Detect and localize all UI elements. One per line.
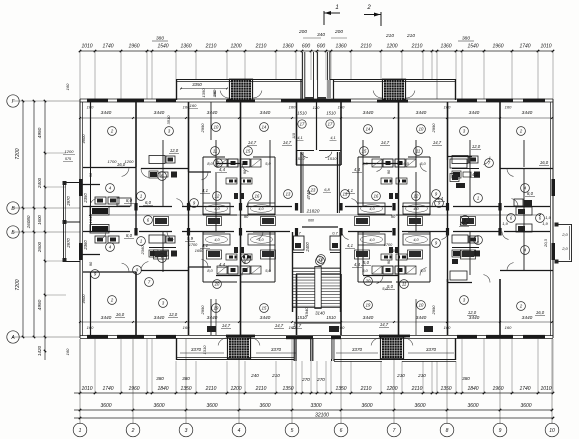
svg-text:14: 14 [366, 127, 371, 132]
bottom dimension row 1 [74, 392, 553, 394]
svg-text:12: 12 [215, 194, 220, 199]
svg-text:1940: 1940 [304, 307, 309, 317]
svg-text:1960: 1960 [492, 44, 503, 50]
svg-text:2,0: 2,0 [561, 246, 568, 251]
svg-text:11: 11 [213, 149, 217, 154]
svg-text:4,1: 4,1 [347, 243, 354, 248]
svg-text:160: 160 [190, 103, 197, 108]
svg-text:1600: 1600 [37, 215, 42, 225]
svg-text:2360: 2360 [140, 245, 145, 256]
svg-text:3370: 3370 [352, 347, 363, 352]
svg-text:1010: 1010 [540, 44, 551, 50]
svg-text:16: 16 [374, 194, 379, 199]
svg-text:110: 110 [292, 133, 296, 139]
svg-text:3440: 3440 [101, 315, 112, 321]
svg-text:2400: 2400 [37, 177, 42, 189]
svg-text:2,0: 2,0 [561, 232, 568, 237]
svg-text:1: 1 [477, 196, 479, 201]
svg-text:8,0: 8,0 [126, 198, 133, 203]
svg-text:16: 16 [255, 194, 260, 199]
svg-text:16,0: 16,0 [116, 312, 125, 317]
svg-text:12,0: 12,0 [472, 144, 481, 149]
axis circle A [7, 331, 19, 343]
svg-text:600: 600 [317, 44, 326, 50]
svg-text:1010: 1010 [81, 44, 92, 50]
center lobby [316, 102, 318, 150]
svg-text:10: 10 [419, 127, 424, 132]
svg-text:32100: 32100 [315, 413, 329, 419]
svg-text:6,0: 6,0 [145, 200, 152, 205]
svg-text:4,4: 4,4 [437, 196, 444, 201]
svg-text:1640: 1640 [88, 214, 93, 224]
svg-text:1360: 1360 [282, 44, 293, 50]
svg-text:1200: 1200 [230, 44, 241, 50]
svg-text:4600: 4600 [81, 294, 86, 304]
svg-text:15: 15 [262, 306, 267, 311]
svg-text:3440: 3440 [154, 315, 165, 321]
svg-text:240: 240 [250, 373, 259, 378]
svg-text:10: 10 [549, 428, 555, 434]
svg-text:4,0: 4,0 [413, 238, 419, 242]
svg-text:380: 380 [156, 36, 164, 42]
svg-text:3: 3 [185, 428, 188, 434]
svg-text:1010: 1010 [540, 386, 551, 392]
svg-text:4950: 4950 [37, 127, 43, 138]
svg-text:19: 19 [214, 306, 219, 311]
svg-text:3440: 3440 [154, 110, 165, 116]
bottom axis circles [79, 339, 81, 424]
top extension lines [79, 51, 81, 99]
svg-text:20: 20 [365, 279, 371, 284]
svg-text:14,7: 14,7 [381, 140, 390, 145]
svg-text:4,0: 4,0 [369, 207, 375, 211]
svg-text:1420: 1420 [37, 345, 42, 356]
axis circle V [7, 202, 19, 214]
svg-text:1700: 1700 [108, 159, 118, 164]
svg-text:200: 200 [298, 29, 307, 35]
svg-text:1960: 1960 [128, 386, 139, 392]
svg-text:4600: 4600 [81, 134, 86, 144]
svg-text:160: 160 [505, 325, 512, 330]
svg-text:1200: 1200 [65, 149, 75, 154]
svg-text:13: 13 [286, 192, 291, 197]
svg-text:4,1: 4,1 [472, 172, 479, 177]
windows top facade [87, 99, 108, 103]
svg-text:3600: 3600 [206, 403, 217, 409]
svg-text:2990: 2990 [200, 305, 205, 316]
svg-text:20: 20 [214, 282, 220, 287]
svg-text:23: 23 [310, 188, 316, 193]
svg-text:4,0: 4,0 [258, 207, 264, 211]
svg-text:7: 7 [393, 428, 396, 434]
svg-text:270: 270 [316, 377, 325, 382]
svg-text:200: 200 [334, 29, 343, 35]
svg-text:4,1: 4,1 [202, 243, 209, 248]
stair shaft hatch bottom-left [229, 338, 249, 358]
svg-text:5,0: 5,0 [420, 161, 426, 166]
svg-text:19: 19 [366, 303, 371, 308]
svg-text:1510: 1510 [326, 111, 336, 116]
svg-text:3440: 3440 [260, 315, 271, 321]
bathroom fixtures mid-right [450, 159, 467, 168]
svg-text:4,0: 4,0 [413, 207, 419, 211]
corridor wall V [83, 206, 130, 208]
outer wall top facade [80, 98, 553, 100]
svg-text:16,0: 16,0 [401, 161, 410, 166]
svg-text:1: 1 [140, 194, 142, 199]
svg-text:1,9: 1,9 [542, 221, 548, 226]
svg-text:160: 160 [65, 83, 70, 90]
svg-text:600: 600 [302, 44, 311, 50]
svg-text:17: 17 [300, 122, 305, 127]
svg-text:12,0: 12,0 [170, 148, 179, 153]
right wall piers [552, 179, 556, 196]
interior dim row top [80, 117, 553, 119]
svg-text:14,7: 14,7 [248, 140, 257, 145]
svg-text:2: 2 [366, 5, 371, 11]
center bath pair [294, 236, 305, 250]
svg-text:2110: 2110 [255, 44, 267, 50]
svg-text:3140: 3140 [315, 311, 325, 316]
svg-text:3370: 3370 [271, 347, 282, 352]
svg-text:3440: 3440 [522, 110, 533, 116]
svg-text:90: 90 [391, 214, 396, 219]
svg-text:1200: 1200 [230, 386, 241, 392]
svg-text:3440: 3440 [260, 110, 271, 116]
svg-text:1200: 1200 [125, 159, 135, 164]
svg-text:4: 4 [238, 428, 241, 434]
svg-text:1740: 1740 [102, 386, 113, 392]
svg-text:90: 90 [244, 214, 249, 219]
svg-text:9,9: 9,9 [187, 236, 194, 241]
svg-text:12,0: 12,0 [468, 310, 477, 315]
svg-text:380: 380 [156, 376, 164, 381]
svg-text:14,7: 14,7 [222, 323, 231, 328]
svg-text:8,0: 8,0 [362, 161, 368, 166]
bottom dimension row 3 [74, 417, 553, 419]
svg-text:3440: 3440 [363, 110, 374, 116]
svg-text:340: 340 [317, 32, 325, 38]
svg-text:5,0: 5,0 [363, 260, 370, 265]
svg-text:3600: 3600 [153, 403, 164, 409]
svg-text:18: 18 [244, 257, 249, 262]
svg-text:1,9: 1,9 [545, 215, 551, 220]
svg-text:14,7: 14,7 [433, 140, 442, 145]
bathroom fixtures top zone [149, 156, 165, 164]
svg-text:0.7: 0.7 [332, 231, 338, 236]
bottom-left stair block [176, 359, 294, 361]
svg-text:2110: 2110 [205, 44, 217, 50]
svg-text:210: 210 [417, 373, 426, 378]
svg-text:15: 15 [362, 149, 367, 154]
svg-text:160: 160 [212, 90, 217, 97]
svg-text:1200: 1200 [386, 386, 397, 392]
svg-text:5,0: 5,0 [265, 268, 271, 273]
svg-text:2110: 2110 [411, 386, 423, 392]
section marker 2 [380, 12, 382, 26]
svg-text:16,0: 16,0 [536, 310, 545, 315]
svg-text:2600: 2600 [37, 241, 42, 253]
svg-text:160: 160 [289, 105, 296, 110]
svg-text:12: 12 [414, 194, 419, 199]
svg-text:0.7: 0.7 [295, 231, 301, 236]
svg-text:8,0: 8,0 [362, 268, 368, 273]
svg-text:210: 210 [271, 373, 280, 378]
svg-text:2110: 2110 [205, 386, 217, 392]
svg-text:270: 270 [301, 377, 310, 382]
svg-text:2: 2 [131, 428, 135, 434]
svg-text:1510: 1510 [326, 315, 336, 320]
svg-text:4,0: 4,0 [214, 238, 220, 242]
svg-text:8,0: 8,0 [126, 233, 133, 238]
middle band walls [135, 167, 137, 232]
svg-text:1360: 1360 [180, 44, 191, 50]
svg-text:2400: 2400 [305, 242, 310, 253]
svg-text:9: 9 [499, 428, 502, 434]
svg-text:15: 15 [246, 149, 251, 154]
svg-text:3350: 3350 [192, 82, 202, 87]
svg-text:А: А [10, 335, 15, 341]
svg-text:4,0: 4,0 [214, 207, 220, 211]
svg-text:3440: 3440 [522, 315, 533, 321]
svg-text:2350: 2350 [83, 193, 88, 204]
svg-text:4950: 4950 [37, 299, 43, 310]
svg-text:14,7: 14,7 [293, 323, 302, 328]
svg-text:3440: 3440 [207, 110, 218, 116]
svg-text:1510: 1510 [296, 156, 306, 161]
stair shaft hatch bottom-right [382, 338, 402, 358]
svg-text:4,1: 4,1 [347, 188, 354, 193]
section marker 1 [323, 11, 325, 25]
svg-text:8,0: 8,0 [527, 191, 534, 196]
top-right stair block [330, 79, 456, 81]
svg-text:2990: 2990 [200, 123, 205, 134]
svg-text:3600: 3600 [361, 403, 372, 409]
axis circle G [7, 95, 19, 107]
corridor wall B [83, 231, 130, 233]
svg-text:20,3: 20,3 [543, 238, 548, 248]
svg-text:11: 11 [416, 149, 420, 154]
svg-text:7200: 7200 [15, 279, 21, 290]
central staircase [292, 232, 294, 312]
svg-text:3300: 3300 [310, 403, 321, 409]
svg-text:1960: 1960 [128, 44, 139, 50]
svg-text:21820: 21820 [306, 209, 320, 214]
svg-text:14: 14 [262, 125, 267, 130]
svg-text:4,4: 4,4 [219, 167, 226, 172]
svg-text:660: 660 [308, 219, 314, 223]
svg-text:1510: 1510 [328, 156, 338, 161]
svg-text:4,4: 4,4 [354, 262, 361, 267]
svg-text:1540: 1540 [157, 44, 168, 50]
svg-text:1540: 1540 [467, 44, 478, 50]
bath zone wall top [83, 167, 136, 169]
svg-text:16080: 16080 [26, 215, 31, 228]
svg-text:210: 210 [396, 373, 405, 378]
svg-text:1740: 1740 [102, 44, 113, 50]
svg-text:1: 1 [79, 428, 82, 434]
svg-text:1310: 1310 [202, 345, 207, 355]
windows bottom facade [87, 335, 108, 339]
svg-text:10: 10 [419, 303, 424, 308]
svg-text:5: 5 [291, 428, 294, 434]
axis circle B [7, 226, 19, 238]
top-left stair block [176, 79, 302, 81]
svg-text:1350: 1350 [201, 88, 206, 98]
svg-text:14,7: 14,7 [380, 322, 389, 327]
top dimension line [80, 50, 553, 52]
svg-text:210: 210 [406, 33, 415, 39]
outer wall right [552, 99, 554, 338]
room number circles [108, 127, 117, 136]
svg-text:17: 17 [328, 122, 333, 127]
bathroom fixtures bottom zone [149, 235, 165, 243]
svg-text:380: 380 [462, 376, 470, 381]
bathroom fixtures mid-left [95, 197, 106, 204]
svg-text:18: 18 [319, 257, 324, 262]
svg-text:11: 11 [402, 282, 406, 287]
svg-text:210: 210 [385, 33, 394, 39]
corridor dim [90, 214, 540, 216]
svg-text:1740: 1740 [519, 386, 530, 392]
svg-text:1,9: 1,9 [502, 221, 508, 226]
svg-text:3600: 3600 [414, 403, 425, 409]
door arcs [122, 168, 129, 177]
svg-text:4,1: 4,1 [330, 136, 335, 140]
svg-text:1: 1 [477, 238, 479, 243]
svg-text:3440: 3440 [101, 110, 112, 116]
svg-text:1740: 1740 [519, 44, 530, 50]
svg-text:10: 10 [214, 125, 219, 130]
svg-text:2990: 2990 [431, 123, 436, 134]
left balcony [63, 182, 65, 262]
svg-text:160: 160 [505, 105, 512, 110]
right balcony [571, 224, 573, 262]
svg-text:16,0: 16,0 [540, 160, 549, 165]
stair shaft hatch top-right [384, 80, 404, 100]
svg-text:5,0: 5,0 [387, 284, 394, 289]
svg-text:3440: 3440 [469, 315, 480, 321]
svg-text:8: 8 [446, 428, 449, 434]
svg-text:1360: 1360 [440, 44, 451, 50]
bottom dimension row 2 [74, 409, 553, 411]
svg-text:3440: 3440 [363, 315, 374, 321]
svg-text:3600: 3600 [100, 403, 111, 409]
bottom entrance shafts [293, 338, 295, 361]
svg-text:4,0: 4,0 [369, 238, 375, 242]
svg-text:2970: 2970 [66, 196, 71, 207]
svg-text:575: 575 [65, 157, 72, 161]
outer wall bottom facade [80, 335, 553, 337]
svg-text:3510: 3510 [166, 115, 171, 125]
svg-text:3600: 3600 [467, 403, 478, 409]
svg-text:3370: 3370 [426, 347, 437, 352]
svg-text:160: 160 [65, 348, 70, 355]
outer wall left [79, 99, 81, 338]
svg-text:1700: 1700 [189, 243, 198, 247]
svg-text:3440: 3440 [416, 315, 427, 321]
svg-text:1510: 1510 [297, 111, 307, 116]
svg-text:3600: 3600 [520, 403, 531, 409]
svg-text:4,4: 4,4 [354, 167, 361, 172]
svg-text:1840: 1840 [157, 386, 168, 392]
svg-text:2990: 2990 [431, 305, 436, 316]
interior walls bottom band [90, 272, 92, 335]
svg-text:3440: 3440 [416, 110, 427, 116]
svg-text:8,0: 8,0 [207, 161, 213, 166]
svg-text:3600: 3600 [259, 403, 270, 409]
svg-text:2970: 2970 [66, 238, 71, 249]
interior walls top band [90, 102, 92, 167]
left dimension lines [22, 101, 24, 337]
svg-text:1: 1 [335, 5, 338, 11]
kitchen boxes facade [207, 326, 216, 332]
svg-text:1360: 1360 [335, 44, 346, 50]
svg-text:1200: 1200 [386, 44, 397, 50]
svg-text:5,0: 5,0 [382, 286, 388, 291]
svg-text:380: 380 [462, 36, 470, 42]
svg-text:14,7: 14,7 [275, 323, 284, 328]
svg-text:2110: 2110 [360, 44, 372, 50]
bottom-right stair block [334, 359, 456, 361]
top entrance shafts [302, 52, 304, 100]
svg-text:1350: 1350 [440, 386, 451, 392]
kitchen boxes corridor [155, 218, 167, 224]
svg-text:3440: 3440 [469, 110, 480, 116]
svg-text:4,1: 4,1 [297, 136, 302, 140]
svg-text:3370: 3370 [191, 347, 202, 352]
svg-text:5,0: 5,0 [265, 161, 271, 166]
interior dim row bottom [80, 321, 553, 323]
svg-text:4,4: 4,4 [219, 262, 226, 267]
svg-text:1960: 1960 [492, 386, 503, 392]
svg-text:4,1: 4,1 [202, 188, 209, 193]
svg-text:1840: 1840 [467, 386, 478, 392]
svg-text:2110: 2110 [360, 386, 372, 392]
svg-text:14,7: 14,7 [283, 140, 292, 145]
bath zone wall bottom [83, 271, 136, 273]
svg-text:7200: 7200 [15, 148, 21, 159]
svg-text:2360: 2360 [83, 240, 88, 251]
stair shaft hatch top-left [231, 80, 251, 100]
svg-text:12,0: 12,0 [169, 312, 178, 317]
svg-text:2110: 2110 [411, 44, 423, 50]
svg-text:1010: 1010 [81, 386, 92, 392]
svg-text:6: 6 [340, 428, 343, 434]
svg-text:6,8: 6,8 [324, 187, 330, 192]
svg-text:20,7: 20,7 [459, 221, 469, 226]
svg-text:2110: 2110 [255, 386, 267, 392]
svg-text:8,0: 8,0 [207, 268, 213, 273]
svg-text:1: 1 [140, 239, 142, 244]
